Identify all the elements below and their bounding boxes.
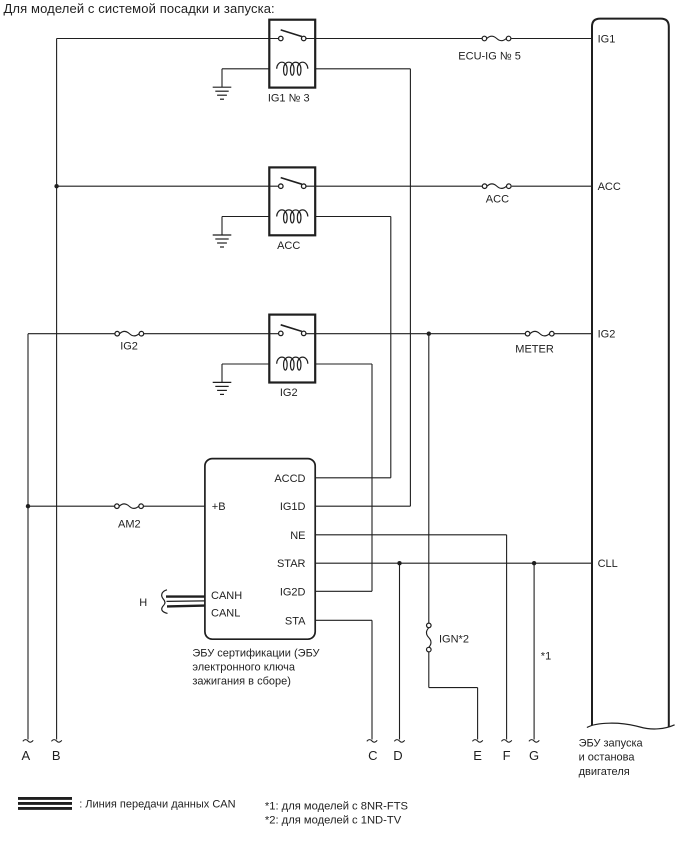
svg-text:зажигания в сборе): зажигания в сборе) xyxy=(192,675,291,687)
svg-text:и останова: и останова xyxy=(579,752,636,764)
svg-text:ЭБУ сертификации (ЭБУ: ЭБУ сертификации (ЭБУ xyxy=(192,648,320,660)
svg-text:*1: *1 xyxy=(541,651,551,663)
svg-text:C: C xyxy=(368,748,377,763)
svg-text:CANL: CANL xyxy=(211,608,240,620)
svg-text:ECU-IG № 5: ECU-IG № 5 xyxy=(458,50,521,62)
svg-text:E: E xyxy=(473,748,482,763)
svg-text:B: B xyxy=(52,748,61,763)
svg-text:Для моделей с системой посадки: Для моделей с системой посадки и запуска… xyxy=(4,1,275,16)
svg-text:ACC: ACC xyxy=(486,194,509,206)
svg-text:CLL: CLL xyxy=(598,558,618,570)
svg-text:IG2: IG2 xyxy=(280,387,298,399)
svg-text:ACC: ACC xyxy=(598,181,621,193)
svg-text:+B: +B xyxy=(212,501,226,513)
svg-text:A: A xyxy=(21,748,30,763)
svg-text:CANH: CANH xyxy=(211,590,242,602)
svg-text:IG2: IG2 xyxy=(598,329,616,341)
svg-text:NE: NE xyxy=(290,530,305,542)
svg-text:G: G xyxy=(529,748,539,763)
svg-text:*2: для моделей с 1ND-TV: *2: для моделей с 1ND-TV xyxy=(265,814,402,826)
svg-text:IG1D: IG1D xyxy=(280,501,306,513)
svg-text:IG1 № 3: IG1 № 3 xyxy=(268,93,310,105)
svg-text:AM2: AM2 xyxy=(118,519,141,531)
svg-text:STAR: STAR xyxy=(277,558,306,570)
svg-text:H: H xyxy=(139,597,147,609)
svg-text:электронного ключа: электронного ключа xyxy=(192,662,295,674)
svg-text:ACC: ACC xyxy=(277,240,300,252)
svg-text:D: D xyxy=(393,748,402,763)
svg-text:двигателя: двигателя xyxy=(579,766,630,778)
svg-text:IG2: IG2 xyxy=(120,340,138,352)
svg-text:: Линия передачи данных CAN: : Линия передачи данных CAN xyxy=(79,798,235,810)
svg-text:ЭБУ запуска: ЭБУ запуска xyxy=(579,737,644,749)
svg-text:STA: STA xyxy=(285,615,306,627)
svg-text:IG1: IG1 xyxy=(598,34,616,46)
svg-text:IG2D: IG2D xyxy=(280,586,306,598)
svg-text:F: F xyxy=(503,748,511,763)
svg-text:ACCD: ACCD xyxy=(274,473,305,485)
svg-text:IGN*2: IGN*2 xyxy=(439,633,469,645)
svg-text:METER: METER xyxy=(515,344,554,356)
svg-text:*1: для моделей с 8NR-FTS: *1: для моделей с 8NR-FTS xyxy=(265,800,408,812)
